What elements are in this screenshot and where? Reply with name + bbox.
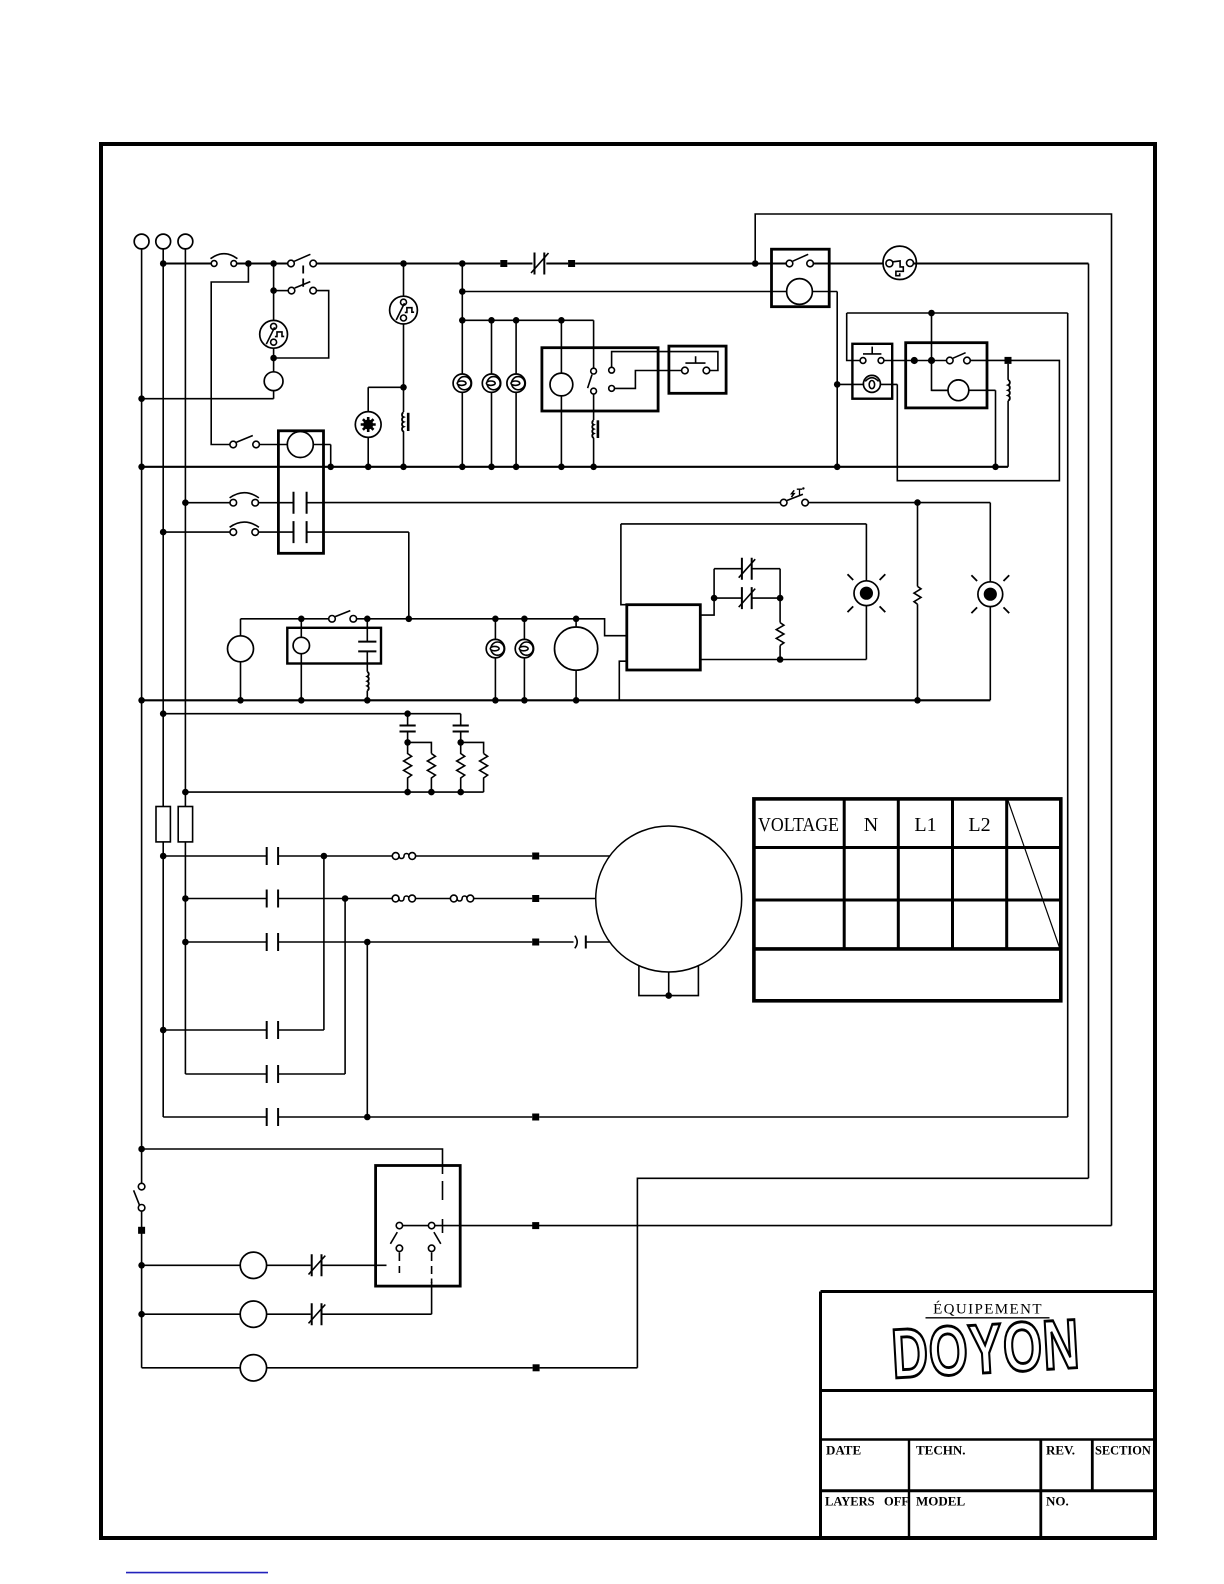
contactor box K2 <box>278 431 323 554</box>
lamp LP4 column <box>494 619 496 701</box>
main line segment b <box>237 262 288 264</box>
overload OL2 <box>392 895 415 902</box>
contactor coil K2 body <box>287 432 313 458</box>
box A switch arm <box>588 375 592 389</box>
voltage table outer <box>754 799 1061 1001</box>
line y=320.3 <box>462 319 593 321</box>
contactor K2 contact row1 bars <box>294 492 307 514</box>
switch S7 arm <box>335 611 350 617</box>
wire NC K3 row <box>714 568 780 570</box>
motor M3 body <box>596 826 742 972</box>
terminal square T3 <box>1005 357 1012 364</box>
wire C3 node jog <box>461 742 484 753</box>
switch S3 arm <box>236 436 252 443</box>
lamp column x=491.5 <box>491 320 493 467</box>
row C wire y=1367.8 <box>142 1367 638 1369</box>
alarm lamp AL2 <box>971 575 1009 613</box>
main line segment d <box>507 262 532 264</box>
fuse switch S5 arc <box>230 522 259 527</box>
rail 2 upper segment <box>162 249 164 807</box>
wire L-drop from node to disconnect S3 <box>211 264 248 445</box>
svg-text:DATE: DATE <box>826 1443 861 1458</box>
box C switch arm <box>953 353 966 359</box>
bus N2 y=700.3 <box>142 699 991 701</box>
switch column lower + heater H2 <box>593 394 595 420</box>
wire line y=313 <box>847 312 1068 314</box>
wire motor M1 bottom <box>367 437 369 466</box>
pump circle column <box>240 619 242 701</box>
wire box C coil feed <box>932 313 949 390</box>
timer TM1 contacts <box>271 323 277 329</box>
wire rail2 to S5 <box>163 531 230 533</box>
wire contact row2 to drop <box>307 532 409 619</box>
svg-text:NO.: NO. <box>1046 1494 1069 1509</box>
relay coil RC1 x=1008.1 <box>1007 364 1009 380</box>
box C coil body <box>932 389 996 391</box>
receptacle R1 glyph <box>893 261 903 276</box>
PB2 actuator <box>863 347 881 354</box>
element E1 body <box>240 1252 266 1278</box>
control line y=502.6 right <box>808 502 990 504</box>
NC contact K4 slash <box>739 589 756 608</box>
switch S1 contacts <box>288 260 295 267</box>
NC contact K1 slash <box>531 253 549 273</box>
timer TM2 slash <box>396 303 404 320</box>
resistor R5 body <box>776 623 784 646</box>
NC contact K5 bars <box>312 1254 322 1276</box>
control line y=502.6 left <box>324 502 781 504</box>
heater coil H1 x=403.5 <box>403 387 405 412</box>
wire S4 to contact <box>259 502 294 504</box>
row6 wire y=1117 <box>163 1116 1067 1118</box>
svg-text:TECHN.: TECHN. <box>916 1443 965 1458</box>
motor M3 terminal box <box>639 966 699 996</box>
wire TH1 top feed <box>621 524 628 605</box>
wire row C riser <box>637 1178 1088 1368</box>
box A aux contacts right pair <box>609 367 615 373</box>
title block divider row3 <box>821 1489 1156 1492</box>
title block column line TECHN/REV <box>1039 1440 1042 1539</box>
wire TH1 lower-left feed from bus <box>619 661 627 700</box>
logo DOYON <box>889 1304 1081 1392</box>
relay coil RC2 column <box>300 619 302 701</box>
contact CT1 bars <box>267 847 278 865</box>
PB1 contacts <box>682 367 689 374</box>
voltage table row lines <box>754 848 1061 901</box>
svg-text:SECTION: SECTION <box>1095 1444 1151 1458</box>
rail 2 lower segment <box>162 842 164 1117</box>
NC contact K5 slash <box>309 1256 326 1275</box>
heater H2 core bar <box>597 420 600 438</box>
border frame <box>101 144 1155 1538</box>
supply circle 3 <box>178 234 193 249</box>
contactor K2 contact row2 bars <box>294 521 307 543</box>
main line segment h <box>914 262 1089 264</box>
fuse FU2 rail3 <box>178 807 192 842</box>
wire PB2 left drop <box>847 313 860 361</box>
rail 1 upper segment <box>141 249 143 399</box>
component box B2 <box>287 628 381 664</box>
wire right drop x=1088.5 <box>1088 264 1090 1179</box>
terminal square T10 <box>533 1364 540 1371</box>
svg-text:L2: L2 <box>968 814 990 836</box>
SB1 dashed actuator right <box>431 1252 433 1283</box>
fuse switch S4 arc <box>230 493 259 498</box>
wire motor M1 top link <box>368 387 403 411</box>
wire rail3 to S4 <box>185 502 230 504</box>
title block column line DATE/TECHN <box>908 1440 910 1539</box>
motor M2 body <box>555 627 598 670</box>
wire y=1149 to selector box <box>142 1149 443 1174</box>
lamp column x=462.3 <box>461 264 463 467</box>
disconnect switch S3 contacts <box>230 441 237 448</box>
box C switch contacts <box>947 357 954 364</box>
alarm lamp AL2 column <box>989 503 991 701</box>
wire y=523.9 <box>621 523 867 525</box>
title block outline <box>821 1292 1156 1539</box>
wire TH1 right out upper <box>700 569 714 615</box>
NC contact K3 bars <box>742 558 752 580</box>
capacitor C2 leads <box>407 714 409 743</box>
switch S8 arm <box>134 1190 140 1205</box>
wire S2 bypass loop <box>274 291 329 358</box>
terminal square T8 <box>138 1227 145 1234</box>
timer TM1 slash <box>266 327 274 344</box>
motor M1 body <box>355 412 381 438</box>
ganged link S1-S2 dashed <box>302 266 304 287</box>
resistor R8 <box>427 754 435 793</box>
pilot device P1 body <box>264 372 283 391</box>
wire box C coil drop <box>995 390 997 467</box>
wire y=398.7 to rail1 <box>142 398 274 400</box>
relay box B1 top right <box>772 249 830 307</box>
rail 1 lower segment <box>141 399 143 1184</box>
wire NC K4 row <box>714 597 780 599</box>
box B1 coil body <box>787 279 813 305</box>
svg-text:VOLTAGE: VOLTAGE <box>758 814 839 836</box>
timer TM1 body <box>260 320 288 348</box>
wire contactor coil right drop <box>330 445 332 467</box>
alarm lamp AL1 <box>848 574 886 612</box>
wire contact row1 out <box>307 502 324 504</box>
relay box C <box>906 343 987 408</box>
contact CT3 bars <box>267 933 278 951</box>
terminal square T1 <box>500 260 507 267</box>
row2 wire y=898.5 <box>185 898 595 900</box>
main line segment c <box>317 262 501 264</box>
lamp LP4 <box>486 639 504 657</box>
capacitor C2 plates <box>400 726 416 732</box>
NC contact K4 bars <box>742 587 752 609</box>
switch S2 row wire stub <box>274 290 289 292</box>
contact CT2 bars <box>267 890 278 908</box>
wire PL1 loop to square <box>897 360 1059 480</box>
title block column line REV/SECTION <box>1091 1440 1094 1491</box>
lamp LP1 <box>453 374 471 392</box>
lamp column x=516.1 <box>515 320 517 467</box>
thermal switch S6 contacts <box>780 499 787 506</box>
wire S3 to contactor coil <box>259 444 330 446</box>
fuse switch S4 contacts row1 <box>230 499 237 506</box>
wire S5 to contact <box>259 531 294 533</box>
overload OL1 <box>392 853 415 860</box>
resistor R6 body <box>914 586 921 604</box>
receptacle R1 body <box>883 246 916 279</box>
NC contact K1 bars <box>535 253 545 275</box>
pushbutton box PB2 <box>852 344 892 399</box>
element E3 body <box>240 1355 266 1381</box>
main line segment g <box>813 262 885 264</box>
EQUIPEMENT underline <box>926 1317 1050 1319</box>
NC contact K3 slash <box>739 559 756 578</box>
box B1 switch arm <box>793 254 809 261</box>
vertical x=345.1 rows2-5 <box>344 899 346 1075</box>
voltage table thick row line <box>754 947 1061 951</box>
wire square to box C <box>970 359 1004 361</box>
voltage table diagonal <box>1008 801 1060 948</box>
wire aux bottom to PB left <box>615 371 682 389</box>
capacitor C4 curved plate <box>575 936 577 949</box>
main line segment e <box>546 262 568 264</box>
pump P2 body <box>228 636 254 662</box>
fuse FU1 rail2 <box>156 807 170 842</box>
switch S1 arm <box>294 254 310 261</box>
contactor coil CA column <box>560 320 562 467</box>
motor M1 star rotor <box>363 420 373 430</box>
PB1 actuator <box>685 356 705 363</box>
terminal square T4 <box>532 853 539 860</box>
timer column x=403.5 wire <box>403 264 405 388</box>
resistor R6 column <box>917 503 919 587</box>
lamp LP3 <box>507 374 525 392</box>
NC contact K6 slash <box>309 1305 326 1324</box>
main switch S8 contacts on rail1 <box>138 1183 145 1190</box>
receptacle R1 terminals <box>886 260 893 267</box>
contact CT6 bars <box>267 1108 278 1126</box>
control line y=618.8 mid <box>357 619 627 636</box>
row4 wire y=1030 <box>163 1029 324 1031</box>
fuse F1 arc <box>211 254 238 259</box>
rail 3 lower segment <box>184 842 186 1074</box>
contact CT4 bars <box>267 1021 278 1039</box>
supply circle 2 <box>156 234 171 249</box>
timer TM2 contacts <box>401 299 407 305</box>
motor M2 column <box>575 619 577 701</box>
svg-text:N: N <box>864 814 878 836</box>
svg-text:REV.: REV. <box>1046 1443 1075 1458</box>
rail 1 below switch <box>141 1211 143 1368</box>
main line L y=263.5 segment a <box>163 262 211 264</box>
wire drop x=837.2 <box>836 292 838 467</box>
box B1 switch contacts <box>786 260 793 267</box>
NC contact K6 bars <box>312 1303 322 1325</box>
SB1 arm left <box>390 1232 397 1244</box>
inductor L1 x=367.3 <box>367 672 368 691</box>
svg-text:DOYON: DOYON <box>889 1304 1081 1392</box>
relay box A <box>542 348 658 411</box>
wire TH1 right out lower <box>700 659 866 661</box>
SB1 contacts <box>396 1222 402 1228</box>
capacitor C3 leads <box>460 714 462 743</box>
wire timer column x=273.6 <box>273 264 275 399</box>
supply circle 1 <box>134 234 149 249</box>
row B wire y=1314.2 <box>142 1282 432 1314</box>
vertical x=323.9 rows1-4 <box>323 856 325 1030</box>
line y=792.1 <box>185 791 483 793</box>
wire top loop y=214 <box>755 214 1111 1226</box>
switch S2 arm <box>295 282 311 288</box>
overload OL3 <box>450 895 473 902</box>
row1 wire y=856 <box>163 855 610 857</box>
svg-text:LAYERS: LAYERS <box>825 1495 875 1509</box>
title block divider row2 <box>821 1438 1156 1440</box>
element E2 body <box>240 1301 266 1327</box>
title block divider logo bottom <box>821 1389 1156 1392</box>
blue underline mark below frame <box>126 1572 268 1574</box>
resistor R5 column <box>779 569 781 623</box>
selector switch box SB1 <box>376 1166 461 1287</box>
timer TM2 step glyph <box>405 308 414 313</box>
alarm lamp AL1 column <box>865 524 867 660</box>
switch S7 contacts <box>329 616 336 623</box>
switch S6 arm <box>787 494 803 500</box>
terminal square T6 <box>532 939 539 946</box>
control box TH1 <box>627 605 701 670</box>
main line segment f <box>575 262 786 264</box>
row3 wire y=942 <box>185 941 609 943</box>
vertical x=367.3 rows3-6 <box>366 942 368 1117</box>
svg-text:OFF: OFF <box>884 1495 909 1509</box>
contactor coil CA body <box>550 373 573 396</box>
lamp LP5 column <box>523 619 525 701</box>
SB1 dashed actuator left <box>398 1252 400 1273</box>
line y=713.7 <box>163 713 461 715</box>
voltage table column lines <box>844 799 1007 949</box>
lamp LP5 <box>515 639 533 657</box>
terminal square T5 <box>532 895 539 902</box>
resistor R10 <box>480 754 488 793</box>
lamp LP2 <box>482 374 500 392</box>
switch column x=593.6 upper <box>593 320 595 368</box>
switch S6 annotation glyph <box>791 490 794 497</box>
terminal square T9 <box>532 1222 539 1229</box>
capacitor C4 bar plate <box>585 936 587 949</box>
rail 3 upper segment <box>184 249 186 807</box>
wire PB2 to box C switch <box>884 360 947 362</box>
PB2 contacts <box>860 358 866 364</box>
switch S2 contacts <box>288 287 295 294</box>
row A wire y=1265.3 <box>142 1264 387 1266</box>
wire aux top loop to PB right <box>612 352 718 371</box>
contact CT5 bars <box>267 1065 278 1083</box>
control line y=618.8 <box>241 618 329 620</box>
wire C2 node jog <box>408 742 432 753</box>
selector mech link dashed <box>442 1181 444 1233</box>
capacitor C1 plates <box>358 642 376 652</box>
box A switch contacts <box>591 368 597 374</box>
row5 wire y=1074 <box>185 1073 345 1075</box>
timer TM1 step glyph <box>275 332 284 337</box>
bus N y=466.8 <box>142 466 1009 468</box>
pilot lamp PL1 in PB2 <box>837 383 897 385</box>
timer TM2 body <box>390 296 418 324</box>
fuse switch S5 contacts row2 <box>230 529 237 536</box>
fuse F1 terminals <box>211 261 217 267</box>
relay coil RC2 body <box>293 637 309 653</box>
SB1 arm right <box>434 1232 441 1244</box>
resistor R7 <box>404 742 412 792</box>
capacitor C1 leads <box>366 619 368 672</box>
heater coil H1 core bar <box>407 413 410 431</box>
terminal square T7 <box>532 1114 539 1121</box>
svg-text:MODEL: MODEL <box>916 1494 965 1509</box>
line y=291.5 through box B1 coil <box>462 291 837 293</box>
SB1 bridge wire <box>403 1225 429 1227</box>
SB1 output row <box>435 1225 1112 1227</box>
pushbutton box PB1 <box>669 346 726 393</box>
wire right drop x=1067.7 <box>1067 313 1069 1117</box>
svg-text:L1: L1 <box>914 814 936 836</box>
terminal square T2 <box>568 260 575 267</box>
resistor R9 <box>457 742 465 792</box>
capacitor C3 plates <box>453 726 469 732</box>
